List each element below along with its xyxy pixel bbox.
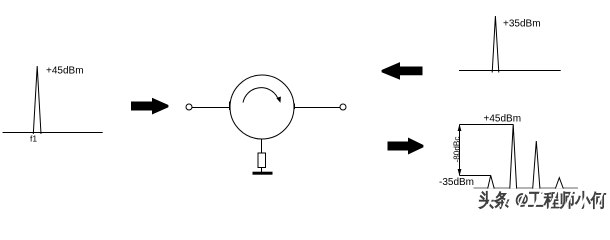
- output second peak: [533, 141, 540, 189]
- arrow input (right-pointing): [131, 98, 168, 115]
- reflected spectrum baseline: [459, 70, 561, 72]
- port 1 terminal: [186, 104, 192, 110]
- port 1 wire: [192, 107, 230, 109]
- ground: [253, 172, 273, 175]
- svg-text:+45dBm: +45dBm: [46, 66, 84, 77]
- watermark 头条@工程师小何: [479, 191, 607, 210]
- resistor to ground wire: [261, 168, 263, 173]
- output small spur peak right: [555, 178, 563, 189]
- arrow output (right-pointing): [388, 138, 424, 155]
- output main peak +45dBm: [510, 124, 517, 188]
- dimension top reference line: [460, 124, 514, 126]
- load resistor: [258, 153, 266, 168]
- dimension vertical line: [459, 125, 461, 176]
- port 2 wire: [294, 107, 340, 109]
- circulator U1 body: [230, 75, 294, 139]
- port 3 wire: [261, 139, 263, 153]
- svg-text:+35dBm: +35dBm: [503, 19, 541, 30]
- circulator rotation arrow: [243, 88, 278, 103]
- reflected signal spike: [492, 16, 499, 73]
- port 1 junction tick: [229, 102, 231, 111]
- arrow reflected (left-pointing): [382, 62, 423, 80]
- svg-text:-80dBc: -80dBc: [452, 137, 461, 163]
- svg-text:-35dBm: -35dBm: [439, 177, 474, 188]
- port 2 terminal: [340, 104, 346, 110]
- dimension arrowhead down: [458, 169, 462, 176]
- input spectrum baseline: [3, 132, 103, 134]
- svg-text:f1: f1: [30, 134, 37, 144]
- input signal spike f1: [33, 66, 41, 134]
- dimension arrowhead up: [458, 124, 462, 131]
- port 2 junction tick: [294, 104, 296, 110]
- svg-text:+45dBm: +45dBm: [484, 114, 522, 125]
- output spectrum baseline (gray): [474, 187, 579, 189]
- watermark white slash pattern: [487, 190, 605, 210]
- dimension bottom reference line: [460, 175, 491, 177]
- output small spur peak left: [488, 175, 495, 188]
